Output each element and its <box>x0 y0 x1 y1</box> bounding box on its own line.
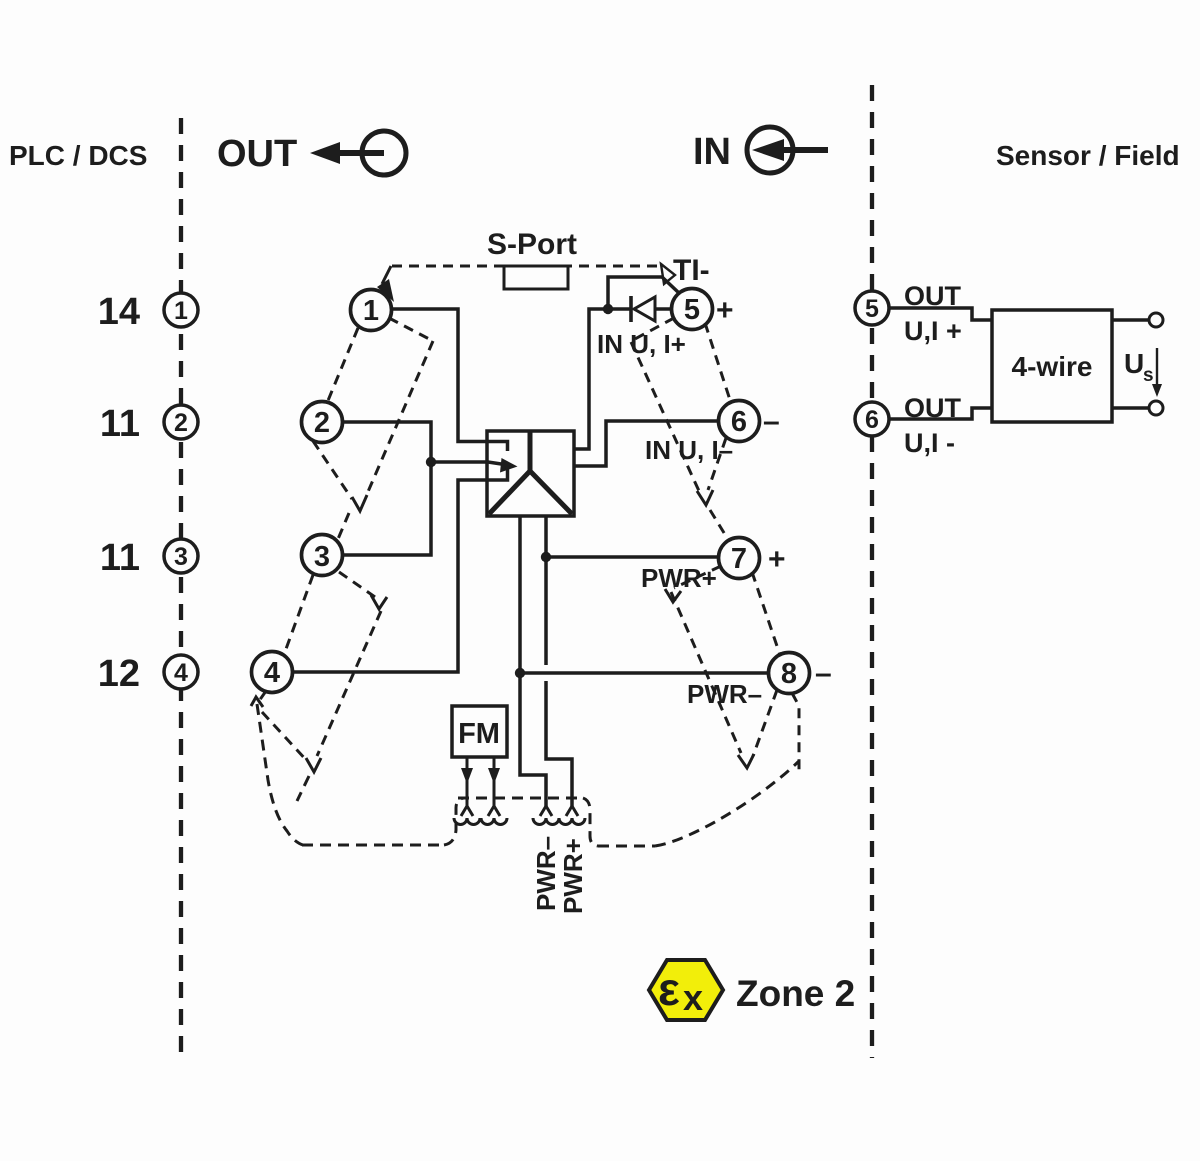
plug contact PWR+ <box>559 806 585 825</box>
plug 3-4 edge tail to spring contact <box>262 712 308 762</box>
field terminal 6 <box>855 402 889 436</box>
plug 1-2 edge terminal2 to spring contact <box>313 441 352 499</box>
junction dot PWR+ node <box>541 552 551 562</box>
plug 1-2 edge terminal1 to terminal2 <box>327 328 358 403</box>
plug link spring contact to terminal 3 <box>338 513 349 539</box>
svg-text:6: 6 <box>731 406 747 438</box>
plug 5-6 edge left vertex to spring contact <box>631 342 699 491</box>
svg-text:+: + <box>768 543 786 576</box>
plug 3-4 edge terminal3 to right vertex <box>339 572 375 597</box>
svg-text:Sensor / Field: Sensor / Field <box>996 140 1180 171</box>
plug 1-2 edge terminal1 to right vertex <box>389 318 433 341</box>
plug bus dashed line <box>458 797 583 800</box>
svg-text:IN U, I+: IN U, I+ <box>597 329 686 359</box>
plug 3-4 edge terminal4 tail <box>259 691 266 701</box>
plug 1-2 edge right vertex to spring contact <box>367 341 433 494</box>
svg-text:2: 2 <box>314 407 330 439</box>
svg-text:Zone 2: Zone 2 <box>736 973 855 1014</box>
wire PWR- node to terminal 8 <box>520 671 768 675</box>
plug 3-4 edge right vertex to spring contact <box>317 611 381 756</box>
svg-text:U,I -: U,I - <box>904 428 955 458</box>
field terminal 5 <box>855 291 889 325</box>
plug 7-8 edge terminal8 down to enclosure <box>792 693 799 772</box>
junction dot PWR- node <box>515 668 525 678</box>
device terminal 7 <box>719 538 760 579</box>
svg-text:PWR–: PWR– <box>531 836 561 911</box>
label OUT U,I- for field terminal 6 <box>904 393 962 458</box>
svg-text:IN: IN <box>693 131 731 173</box>
label OUT U,I+ for field terminal 5 <box>904 281 962 346</box>
enclosure dashed step down right <box>583 798 598 846</box>
plug 5-6 edge terminal5 to terminal6 <box>705 323 731 403</box>
wire terminal 6 to amplifier <box>574 421 718 466</box>
PLC terminal 3 <box>164 539 198 573</box>
svg-text:3: 3 <box>314 541 330 573</box>
PLC/DCS boundary dashed line <box>179 118 183 1058</box>
label Us supply voltage <box>1124 348 1154 386</box>
svg-text:11: 11 <box>100 403 140 445</box>
TI- open arrowhead at S-Port line <box>661 264 675 284</box>
svg-text:U: U <box>1124 348 1144 379</box>
spring contact notch plug 3-4 right vertex <box>371 595 387 609</box>
svg-text:PWR+: PWR+ <box>641 563 717 593</box>
svg-text:PWR–: PWR– <box>687 679 762 709</box>
plug 7-8 edge terminal7 to terminal8 <box>752 572 780 655</box>
S-Port arrowhead into terminal 1 <box>377 279 394 302</box>
plug 7-8 edge left vertex to spring contact <box>671 592 741 753</box>
svg-text:1: 1 <box>363 295 379 327</box>
device terminal 6 <box>719 401 760 442</box>
device terminal 5 <box>672 289 713 330</box>
FM box <box>452 706 507 757</box>
svg-text:4: 4 <box>264 657 280 689</box>
plug contact FM left <box>454 806 480 825</box>
svg-text:OUT: OUT <box>217 133 297 175</box>
wire node junction to amplifier input arrow <box>431 462 508 465</box>
wire amplifier right power pin down <box>544 516 548 665</box>
svg-text:5: 5 <box>684 294 700 326</box>
svg-text:PWR+: PWR+ <box>558 838 588 914</box>
plug 3-4 edge terminal3 to terminal4 <box>286 575 313 649</box>
svg-text:IN U, I–: IN U, I– <box>645 435 733 465</box>
svg-text:PLC / DCS: PLC / DCS <box>9 140 147 171</box>
spring contact notch plug 1-2 <box>352 495 367 511</box>
svg-text:14: 14 <box>98 291 140 333</box>
svg-text:4: 4 <box>174 659 188 687</box>
spring contact notch plug 5-6 <box>697 490 713 505</box>
supply terminal circle bottom <box>1149 401 1163 415</box>
enclosure dashed step up to plug bus <box>444 798 464 845</box>
isolation amplifier Y divider <box>489 432 572 514</box>
svg-text:U,I +: U,I + <box>904 316 962 346</box>
svg-text:12: 12 <box>98 653 140 695</box>
wire field terminal 6 to 4-wire box <box>889 408 992 419</box>
spring contact notch plug 7-8 left vertex <box>665 589 681 602</box>
wire amplifier left power pin down <box>520 516 546 806</box>
svg-text:5: 5 <box>865 295 879 323</box>
4-wire sensor box <box>992 310 1112 422</box>
isolation amplifier U1 box <box>487 431 574 516</box>
svg-text:3: 3 <box>174 543 188 571</box>
FM left lead with arrow <box>461 757 473 806</box>
enclosure dashed bottom right <box>598 845 655 848</box>
diode D1 cathode bar <box>629 296 633 322</box>
plug link spring contact to terminal 7 <box>710 510 729 541</box>
Sensor/Field boundary dashed line <box>870 85 874 1058</box>
amplifier input arrowhead <box>500 458 518 473</box>
supply terminal circle top <box>1149 313 1163 327</box>
svg-text:7: 7 <box>731 543 747 575</box>
enclosure dashed bottom left <box>302 844 444 847</box>
svg-text:+: + <box>716 294 734 327</box>
wire terminal 1 to amplifier <box>392 309 508 451</box>
enclosure dashed left side <box>257 704 303 845</box>
wire 4-wire box to supply terminal + <box>1112 318 1148 322</box>
Us arrow down <box>1152 348 1162 397</box>
device terminal 8 <box>769 653 810 694</box>
svg-text:FM: FM <box>458 718 500 750</box>
enclosure dashed sweep up to terminal 8 line <box>655 761 799 846</box>
svg-text:TI-: TI- <box>673 254 710 287</box>
wire PWR+ node to terminal 7 <box>546 555 718 559</box>
svg-text:–: – <box>815 657 832 690</box>
wire terminal 5 via diode to amplifier <box>655 307 671 311</box>
spring contact notch plug 3-4 bottom <box>306 758 321 772</box>
svg-text:4-wire: 4-wire <box>1012 351 1093 382</box>
wire field terminal 5 to 4-wire box <box>889 308 992 320</box>
S-Port dashed line <box>392 265 663 268</box>
wire terminal 4 riser to amplifier output node <box>293 466 508 672</box>
plug contact FM right <box>481 806 507 825</box>
wire diode to corner into amplifier right <box>574 309 631 449</box>
svg-text:11: 11 <box>100 537 140 579</box>
device terminal 1 <box>351 290 392 331</box>
svg-text:ε: ε <box>658 963 680 1015</box>
plug contact PWR- <box>533 806 559 825</box>
junction dot at diode node <box>603 304 613 314</box>
spring contact notch terminal4 tail <box>251 697 263 707</box>
S-Port box <box>504 266 568 289</box>
S-Port elbow into terminal 1 <box>382 266 391 284</box>
PLC terminal 2 <box>164 405 198 439</box>
Ex hexagon symbol <box>649 960 723 1020</box>
wire 4-wire box to supply terminal - <box>1112 406 1148 410</box>
device terminal 2 <box>302 402 343 443</box>
plug 5-6 edge terminal5 to left vertex <box>633 318 674 340</box>
spring contact notch plug 7-8 bottom <box>738 754 754 768</box>
PLC terminal 1 <box>164 293 198 327</box>
svg-text:S-Port: S-Port <box>487 228 577 261</box>
IN direction symbol (circle with arrow pointing in) <box>747 127 828 173</box>
plug 7-8 edge terminal7 to left vertex <box>674 566 721 588</box>
wire amplifier right power pin lower part <box>546 681 572 806</box>
OUT direction symbol (circle with left arrow) <box>310 131 406 175</box>
svg-text:1: 1 <box>174 297 188 325</box>
device terminal 4 <box>252 652 293 693</box>
svg-text:6: 6 <box>865 406 879 434</box>
svg-text:s: s <box>1143 365 1154 386</box>
wire diode node up to TI- switch <box>608 277 679 309</box>
junction dot terminal 2/3 node <box>426 457 436 467</box>
FM right lead with arrow <box>488 757 500 806</box>
svg-text:x: x <box>683 977 703 1018</box>
svg-text:–: – <box>763 405 780 438</box>
device terminal 3 <box>302 535 343 576</box>
plug 7-8 edge terminal8 to spring contact <box>753 690 777 756</box>
PLC terminal 4 <box>164 655 198 689</box>
svg-text:8: 8 <box>781 658 797 690</box>
svg-text:2: 2 <box>174 409 188 437</box>
plug 3-4 spring contact merge to enclosure <box>297 776 309 801</box>
wire terminal 2 down to terminal 3 <box>343 422 431 555</box>
plug 5-6 edge terminal6 to spring contact <box>708 438 726 490</box>
diode D1 triangle <box>634 297 655 321</box>
